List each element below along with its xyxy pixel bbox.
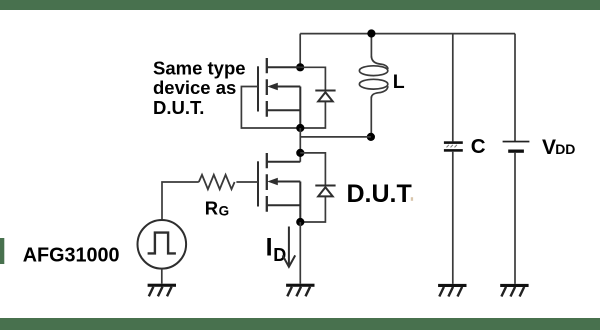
wire: upper source node down to lower drain — [299, 128, 301, 162]
svg-text:DD: DD — [555, 141, 575, 157]
wire: upper drain drop from rail — [299, 34, 301, 68]
svg-text:D.U.T: D.U.T — [347, 180, 412, 208]
label ID (drain current) — [266, 233, 287, 265]
inductor L coil — [359, 57, 388, 98]
node: junction dot at inductor top — [367, 29, 375, 37]
node: junction dot lower MOSFET source — [296, 218, 304, 226]
bottom green bar — [0, 318, 600, 330]
svg-text:G: G — [219, 203, 230, 218]
svg-text:R: R — [205, 197, 218, 218]
wire: lower body-diode branch — [300, 153, 325, 222]
label RG — [205, 197, 229, 218]
wire: upper gate tied to source node — [241, 87, 296, 129]
wire: lower source to ground — [299, 222, 301, 284]
wire: resistor to generator — [162, 182, 199, 220]
left green tab — [0, 238, 4, 264]
wire: upper body-diode branch — [300, 67, 325, 128]
node: junction dot lower MOSFET drain — [296, 149, 304, 157]
svg-text:device as: device as — [153, 77, 236, 98]
resistor RG — [199, 175, 235, 189]
svg-text:D.U.T.: D.U.T. — [153, 97, 204, 118]
ground: under D.U.T. source — [286, 284, 314, 297]
arrow: drain current direction — [283, 227, 296, 267]
ground: under VDD — [500, 284, 528, 297]
wire: inductor bottom lead — [370, 97, 372, 137]
wire: generator to ground — [161, 269, 163, 284]
svg-text:I: I — [266, 233, 273, 261]
wire: switch node to inductor bottom — [300, 136, 371, 138]
node: junction dot upper MOSFET drain — [296, 63, 304, 71]
wire: C to ground — [452, 152, 454, 284]
ground: under C — [438, 284, 466, 297]
svg-text:V: V — [542, 136, 556, 159]
wire: top supply rail — [300, 33, 515, 35]
svg-text:L: L — [393, 71, 405, 93]
capacitor C plates — [444, 141, 463, 151]
ground: under generator — [148, 284, 176, 297]
wire: C branch drop from rail — [452, 34, 454, 142]
wire: inductor top lead — [370, 34, 372, 58]
diode: lower body diode (D.U.T.) — [315, 186, 335, 197]
transistor: same-type device MOSFET (upper) — [258, 58, 300, 128]
svg-text:C: C — [471, 135, 486, 158]
node: junction dot upper MOSFET source — [296, 124, 304, 132]
svg-text:AFG31000: AFG31000 — [23, 245, 120, 267]
svg-text:Same type: Same type — [153, 57, 246, 78]
svg-text:D: D — [273, 245, 286, 265]
battery VDD — [503, 141, 530, 153]
wire: gate lead to resistor — [236, 181, 258, 183]
wire: VDD branch drop from rail — [514, 34, 516, 142]
diode: upper body diode — [315, 91, 335, 102]
wire: VDD to ground — [514, 153, 516, 284]
label: same type device note — [153, 57, 246, 117]
source: AFG pulse generator — [138, 220, 187, 269]
label VDD — [542, 136, 575, 159]
transistor: D.U.T. MOSFET (lower) — [258, 153, 300, 222]
node: junction dot at inductor bottom — [367, 133, 375, 141]
top green bar — [0, 0, 600, 10]
